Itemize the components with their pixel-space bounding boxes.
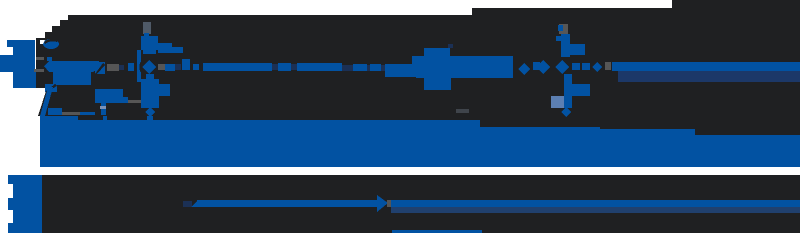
water band dark notch 1 bbox=[480, 116, 600, 127]
pin 1 grey cap bbox=[143, 22, 151, 34]
white diagonal notch bbox=[40, 40, 45, 44]
grey dash right of node1 bbox=[158, 64, 165, 70]
white wedge under lake bbox=[35, 88, 47, 116]
pin 2 bottom diamond bbox=[561, 107, 571, 117]
navy bit bbox=[119, 65, 124, 70]
blob a stem light break bbox=[100, 106, 106, 109]
blue bottom-left piece bbox=[48, 108, 62, 115]
grey dash row 1 bbox=[34, 69, 44, 72]
water band dark notch 3 bbox=[695, 116, 800, 135]
pin 2 node ring bbox=[555, 60, 569, 74]
pin 2 stem step bbox=[570, 44, 585, 55]
dashes after cloud bbox=[533, 60, 602, 74]
cloud main body bbox=[416, 56, 513, 78]
bottom route line right bbox=[391, 200, 800, 207]
pin 2 stem upper bbox=[561, 34, 570, 57]
left blue lake bbox=[7, 40, 35, 47]
pin 1 box step bbox=[158, 43, 172, 53]
bottom route start navy lead bbox=[183, 201, 192, 207]
navy shadow bottom bbox=[391, 207, 800, 213]
pin 1 vertical line bbox=[137, 50, 141, 82]
blue nub before bar bbox=[612, 62, 618, 71]
dashed route left segment dashes bbox=[95, 56, 420, 77]
navy dash bbox=[175, 64, 181, 70]
grey dash row 2 bbox=[62, 112, 80, 115]
swoosh icon blue bbox=[43, 39, 59, 49]
blob a stem bbox=[101, 103, 106, 115]
cloud lower-left block bbox=[424, 78, 451, 90]
navy shadow under bar bbox=[618, 71, 800, 82]
pin 1 lower connector bbox=[146, 74, 154, 81]
blue arrow cluster mid-left bbox=[44, 61, 99, 85]
dark strip above water band bbox=[52, 116, 800, 122]
pin 1 bottom diamond bbox=[145, 107, 155, 117]
pin 1 node ring bbox=[142, 60, 156, 74]
slash on blob bbox=[95, 63, 105, 74]
blue bottom blob bbox=[45, 84, 57, 92]
grey dash before bar bbox=[605, 62, 611, 70]
pin 1 stem right ext bbox=[159, 84, 170, 96]
grey dash row 3 bbox=[125, 100, 145, 103]
bottom route arrowhead bbox=[377, 195, 388, 212]
water band bbox=[40, 120, 800, 167]
blue dash bottom bbox=[80, 112, 95, 115]
lower dark canvas block bbox=[42, 175, 800, 233]
left bottom bar edge tabs bbox=[8, 175, 13, 184]
grey dash row 1b bbox=[36, 57, 44, 60]
water band blue poke left bbox=[40, 116, 78, 122]
navy connector dashes on route bbox=[272, 64, 385, 71]
pin 1 cap blue nub bbox=[144, 33, 149, 38]
cloud diamond dot bbox=[518, 63, 530, 75]
pin 2 lower stem bbox=[564, 74, 572, 108]
arrow notch grey bbox=[387, 200, 391, 207]
pin 2 side bar bbox=[572, 84, 590, 96]
long blue bar right bbox=[617, 62, 800, 71]
blob dark slash bbox=[45, 84, 57, 92]
bottom edge blue line bbox=[392, 230, 482, 233]
pin 2 left nub bbox=[556, 36, 561, 41]
bottom route line left bbox=[197, 200, 377, 207]
pin 2 light patch bbox=[551, 96, 564, 108]
bottom route start wedge bbox=[191, 200, 200, 207]
blue blob a bbox=[95, 89, 123, 97]
cloud top nub bbox=[448, 44, 453, 48]
pin 1 blue box bbox=[141, 36, 158, 50]
main dark canvas upper block bbox=[36, 0, 800, 116]
blue diagonal stream bbox=[40, 87, 53, 116]
arrow top nub bbox=[47, 57, 52, 61]
pin 2 cap blue corner bbox=[558, 25, 563, 31]
pin 1 box step 2 bbox=[172, 47, 183, 53]
swoosh icon dark arc bbox=[44, 39, 58, 44]
pin 1 lower wide stem bbox=[141, 79, 159, 108]
grey dash on route bbox=[107, 64, 119, 71]
water band dark notch 2 bbox=[600, 116, 695, 129]
water band blue poke mid bbox=[147, 116, 153, 122]
left bottom blue bar bbox=[13, 175, 42, 233]
big blue cloud top block bbox=[424, 48, 450, 56]
faint grey dash under cloud bbox=[456, 109, 469, 113]
pin 2 grey cap bbox=[559, 24, 568, 34]
